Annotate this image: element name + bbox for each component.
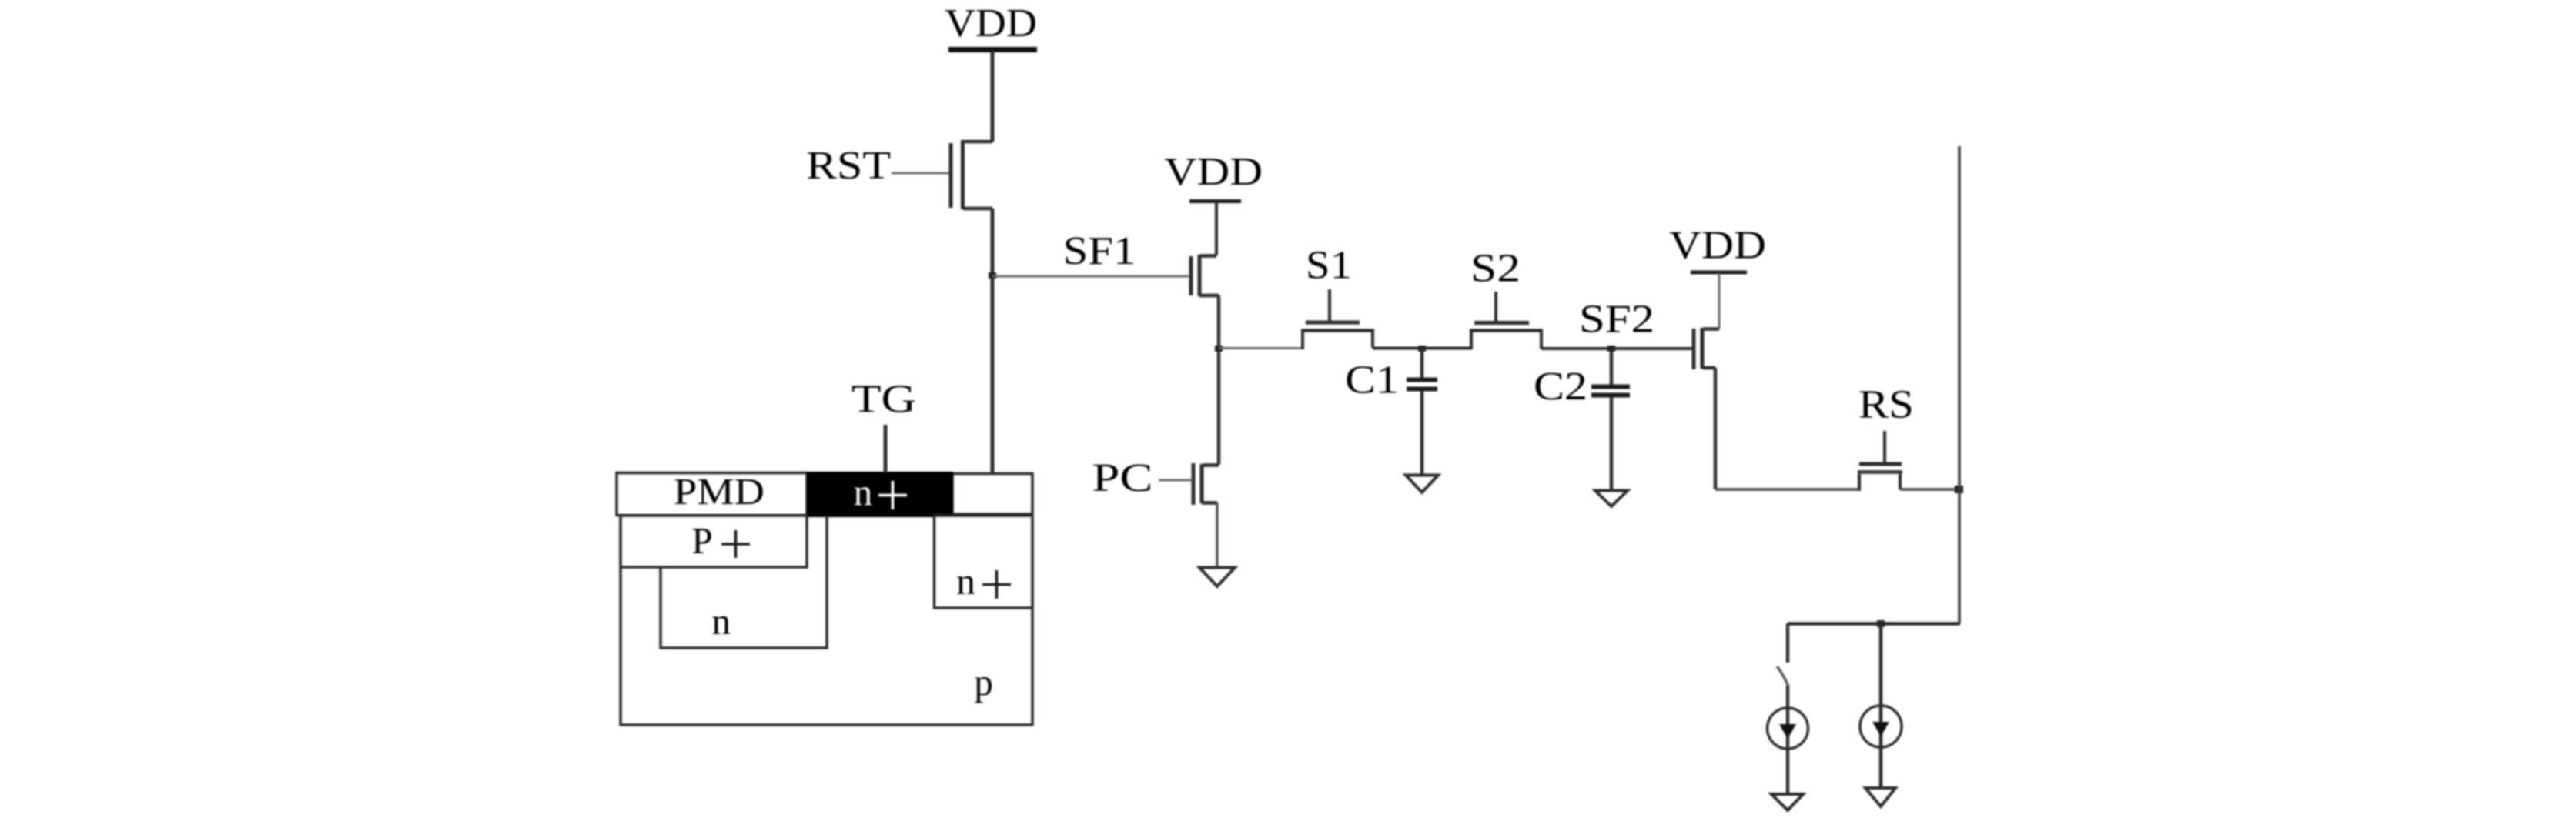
- svg-text:S1: S1: [1306, 244, 1352, 288]
- wire PC source down: [1216, 502, 1219, 567]
- svg-text:RST: RST: [806, 144, 891, 188]
- wire left branch upper: [1786, 623, 1790, 663]
- node A junction: [1215, 346, 1223, 352]
- svg-text:n: n: [854, 471, 873, 513]
- transistor SF1: [1200, 254, 1216, 258]
- n+ floating diffusion box: [935, 516, 1033, 608]
- transfer gate n+ (black): [807, 472, 953, 517]
- node bus junction: [1955, 486, 1963, 493]
- wire VDD to SF1 drain: [1215, 202, 1218, 255]
- wire TG lead: [884, 425, 888, 473]
- FD contact box (right of gate): [952, 474, 1032, 515]
- svg-text:n: n: [956, 560, 975, 603]
- svg-text:RS: RS: [1858, 383, 1914, 427]
- svg-text:SF1: SF1: [1063, 229, 1136, 273]
- power rail VDD (above SF2): [1691, 271, 1747, 275]
- wire left branch to current source: [1786, 686, 1790, 794]
- capacitor C1: [1420, 348, 1424, 378]
- svg-text:P: P: [691, 519, 712, 562]
- wire FD to SF1 gate: [992, 275, 1189, 278]
- svg-text:PMD: PMD: [674, 470, 764, 513]
- transistor RS: [1858, 474, 1861, 491]
- current source I1: [1768, 708, 1808, 749]
- node FD junction: [989, 272, 996, 279]
- svg-text:TG: TG: [851, 378, 916, 422]
- transistor SF2: [1703, 327, 1719, 331]
- svg-text:SF2: SF2: [1579, 298, 1654, 342]
- transistor PC: [1203, 463, 1219, 467]
- wire RS to column bus: [1900, 488, 1959, 491]
- svg-text:C1: C1: [1345, 359, 1399, 402]
- wire bus bottom horizontal: [1788, 622, 1960, 626]
- transistor RST: [963, 140, 992, 144]
- current source I2: [1860, 706, 1902, 747]
- wire right branch to current source: [1879, 623, 1883, 788]
- svg-text:PC: PC: [1092, 456, 1153, 500]
- svg-text:VDD: VDD: [1669, 224, 1766, 268]
- wire S2 to SF2 gate: [1541, 347, 1693, 350]
- wire RST gate lead: [892, 172, 949, 175]
- node I2 junction: [1877, 620, 1885, 627]
- ground (below C2): [1595, 491, 1628, 507]
- svg-text:VDD: VDD: [1164, 150, 1263, 194]
- wire RS gate lead: [1883, 431, 1886, 462]
- switch SW1: [1777, 666, 1788, 686]
- wire SF2 source down: [1714, 368, 1718, 489]
- wire S1 to S2: [1373, 347, 1471, 350]
- wire PC gate lead: [1159, 479, 1193, 482]
- svg-text:n: n: [711, 600, 731, 643]
- wire VDD to RST drain: [991, 51, 995, 142]
- transistor S1: [1301, 331, 1304, 349]
- power rail VDD (top, above RST): [948, 47, 1037, 52]
- capacitor C2: [1610, 349, 1614, 385]
- ground (below PC): [1199, 568, 1235, 587]
- p substrate box: [621, 516, 1032, 725]
- node C1 junction: [1418, 346, 1426, 352]
- wire node A to S1: [1219, 347, 1303, 349]
- ground (below I2): [1865, 788, 1895, 806]
- wire S2 gate lead: [1494, 292, 1497, 321]
- svg-text:VDD: VDD: [945, 2, 1037, 45]
- wire S1 gate lead: [1328, 289, 1331, 321]
- svg-text:p: p: [974, 661, 993, 703]
- n photodiode well: [661, 516, 827, 648]
- power rail VDD (above SF1): [1189, 199, 1241, 203]
- svg-text:C2: C2: [1534, 365, 1587, 409]
- ground (below C1): [1406, 476, 1438, 493]
- wire RST source down to floating diffusion: [991, 209, 995, 472]
- PMD oxide box: [617, 473, 807, 516]
- svg-text:S2: S2: [1470, 247, 1521, 291]
- wire column bus vertical: [1958, 146, 1961, 623]
- ground (below I1): [1771, 794, 1803, 810]
- node C2 junction: [1607, 346, 1615, 352]
- wire VDD to SF2 drain: [1718, 273, 1721, 329]
- transistor S2: [1470, 331, 1473, 349]
- wire SF2 to RS: [1715, 488, 1859, 491]
- P+ pinning layer box: [621, 516, 807, 567]
- wire SF1 source down: [1217, 295, 1221, 465]
